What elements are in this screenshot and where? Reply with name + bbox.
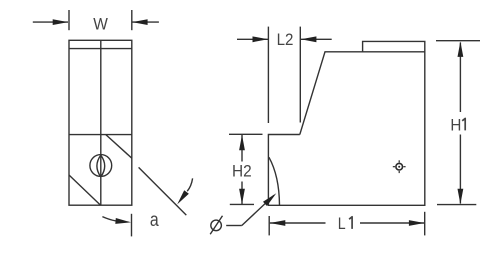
svg-text:L2: L2 xyxy=(277,30,294,49)
angle extension line below front view xyxy=(131,214,133,237)
L1 dimension line right segment xyxy=(360,222,424,224)
svg-text:W: W xyxy=(93,14,108,33)
L2 dimension line left xyxy=(237,38,268,40)
L1 dimension arrowhead right xyxy=(409,220,425,226)
L1 extension line left xyxy=(268,216,270,235)
H2 dimension arrowhead up xyxy=(239,135,245,151)
angle leader arrowhead xyxy=(115,218,131,225)
diameter leader arrowhead xyxy=(263,191,278,206)
svg-text:H: H xyxy=(450,115,461,134)
clamp screw circle xyxy=(90,155,112,177)
L2 extension line right xyxy=(299,27,301,123)
L1 extension line right xyxy=(424,212,426,236)
front view top clamp line xyxy=(69,48,132,50)
diameter leader horizontal xyxy=(226,225,242,227)
diameter symbol circle xyxy=(211,220,222,231)
L2 dimension arrowhead left xyxy=(253,36,269,42)
diagonal leader arrowhead xyxy=(175,190,189,206)
front view outline xyxy=(69,40,132,205)
H1 top extension tick xyxy=(436,40,480,42)
mounting hole crosshair marker xyxy=(393,160,406,173)
H2 dimension line lower segment xyxy=(241,182,243,205)
W dimension line right xyxy=(132,21,159,23)
H2 dimension line upper segment xyxy=(241,135,243,162)
H2 top extension tick xyxy=(229,133,263,135)
diameter symbol slash xyxy=(210,216,222,235)
front view lower-left chamfer diagonal xyxy=(69,175,101,205)
svg-text:a: a xyxy=(150,210,159,231)
W dimension extension line left xyxy=(68,10,70,30)
H2 bottom extension tick xyxy=(230,203,254,205)
svg-text:L: L xyxy=(338,214,346,233)
svg-text:H2: H2 xyxy=(232,162,252,181)
diameter leader diagonal xyxy=(242,195,274,225)
side view body outline xyxy=(268,41,424,205)
round insert edge arc xyxy=(269,157,280,205)
H1 dimension arrowhead up xyxy=(458,41,464,57)
L2 dimension line right xyxy=(301,38,332,40)
W dimension arrowhead left xyxy=(53,19,69,25)
L2 extension line left xyxy=(267,27,269,123)
front view vertical center line xyxy=(100,40,102,205)
W dimension extension line right xyxy=(131,10,133,30)
H1 dimension line upper segment xyxy=(459,43,461,113)
curved leader tail to diagonal xyxy=(187,178,192,191)
W dimension arrowhead right xyxy=(132,19,148,25)
front view mid shoulder line xyxy=(69,134,132,136)
front view upper-right chamfer diagonal xyxy=(106,135,132,159)
L1 dimension arrowhead left xyxy=(270,220,286,226)
H1 dimension arrowhead down xyxy=(458,189,464,205)
H1 bottom extension tick xyxy=(437,204,476,206)
L2 dimension arrowhead right xyxy=(301,36,317,42)
H2 dimension arrowhead down xyxy=(239,189,245,205)
H1 dimension line lower segment xyxy=(459,135,461,204)
long diagonal reference line xyxy=(139,167,187,215)
screw slot lens xyxy=(97,155,105,177)
W dimension line left xyxy=(33,21,68,23)
L1 dimension line left segment xyxy=(270,222,326,224)
angle leader tail xyxy=(102,217,116,221)
